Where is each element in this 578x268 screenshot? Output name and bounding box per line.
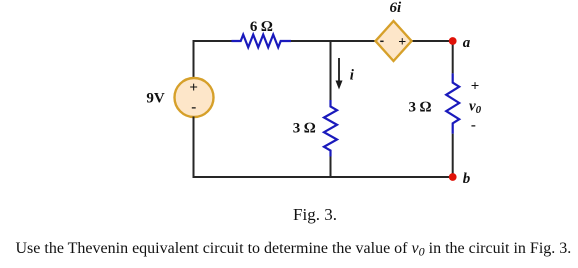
wire right branch lower	[452, 134, 454, 177]
svg-text:-: -	[471, 118, 476, 134]
node b dot	[449, 173, 457, 181]
wire right branch upper	[452, 41, 454, 73]
svg-text:+: +	[398, 35, 406, 50]
svg-text:9V: 9V	[146, 90, 165, 106]
resistor R3 3ohm right	[446, 73, 459, 133]
svg-text:3 Ω: 3 Ω	[409, 99, 432, 115]
wire middle branch upper	[330, 41, 332, 100]
svg-text:i: i	[350, 68, 355, 84]
svg-text:6i: 6i	[389, 0, 402, 16]
svg-text:+: +	[471, 79, 480, 95]
wire left vertical lower	[193, 117, 195, 179]
wire middle branch lower	[330, 157, 332, 178]
svg-text:3 Ω: 3 Ω	[293, 121, 316, 137]
wire top-left horizontal	[194, 40, 232, 42]
svg-text:Fig. 3.: Fig. 3.	[293, 205, 337, 224]
voltage source V1 9V	[175, 78, 214, 117]
wire top right	[412, 40, 453, 42]
svg-text:Use the Thevenin equivalent ci: Use the Thevenin equivalent circuit to d…	[16, 240, 572, 259]
U1 minus sign	[380, 40, 383, 42]
wire left vertical upper	[193, 40, 195, 79]
svg-text:6 Ω: 6 Ω	[250, 19, 273, 35]
resistor R1 6ohm	[232, 35, 292, 48]
svg-text:+: +	[189, 80, 198, 96]
svg-text:-: -	[191, 100, 196, 116]
svg-text:v0: v0	[469, 99, 482, 117]
resistor R2 3ohm middle	[324, 100, 337, 157]
svg-text:a: a	[463, 35, 471, 51]
current arrow i	[338, 58, 340, 84]
svg-text:b: b	[463, 171, 471, 187]
wire top middle	[291, 40, 376, 42]
dependent source U1 diamond	[376, 21, 412, 61]
wire bottom	[193, 176, 453, 178]
node a dot	[449, 37, 457, 45]
